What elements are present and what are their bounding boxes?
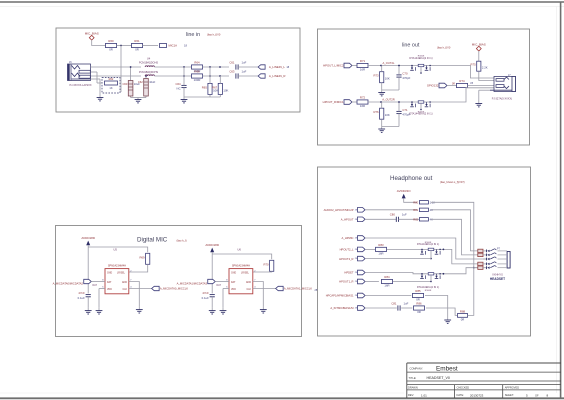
sheet border bottom — [0, 393, 564, 398]
line-out block frame — [318, 29, 530, 145]
wire — [129, 282, 140, 307]
port A_LINEIN_R — [258, 74, 285, 78]
svg-text:C60: C60 — [122, 82, 127, 86]
sheet border top — [0, 2, 564, 6]
resistor R81 — [413, 208, 433, 212]
svg-text:A_LINEIN_R: A_LINEIN_R — [269, 74, 286, 78]
svg-text:DAT: DAT — [231, 281, 236, 284]
IC U5 SPM1423HM4H — [102, 264, 132, 293]
rev field — [408, 393, 427, 397]
ground — [444, 318, 451, 323]
line-in title — [186, 32, 221, 38]
port HPOUT_R — [323, 100, 352, 105]
svg-text:HPOUT1_R: HPOUT1_R — [339, 280, 353, 284]
wire — [203, 66, 230, 68]
svg-text:AVDD18D: AVDD18D — [205, 243, 219, 247]
wire — [478, 51, 480, 61]
port A_HPOUT — [341, 217, 365, 222]
wire — [365, 218, 396, 220]
off-page port MIC1A — [160, 44, 188, 48]
svg-text:U6: U6 — [237, 247, 241, 251]
capacitor C64 — [175, 82, 186, 91]
inductor FB61 — [139, 71, 159, 76]
wire — [368, 97, 409, 103]
svg-text:470pF: 470pF — [402, 76, 410, 80]
svg-text:47nF: 47nF — [202, 291, 209, 295]
designator U6 — [237, 247, 241, 251]
wire — [387, 248, 419, 250]
svg-text:R80: R80 — [413, 201, 418, 205]
connector J7 line-out jack — [490, 74, 516, 101]
svg-text:HEADSET: HEADSET — [490, 277, 505, 281]
svg-text:A_HPOUT: A_HPOUT — [341, 218, 354, 222]
svg-text:R75: R75 — [471, 63, 477, 67]
wire — [117, 45, 132, 47]
power AVDD33O — [397, 189, 411, 198]
svg-text:U5: U5 — [113, 247, 117, 251]
svg-text:1uF: 1uF — [242, 69, 247, 73]
headphone-out title — [390, 175, 465, 184]
line-out title — [402, 43, 451, 50]
ground — [209, 308, 216, 314]
svg-text:A_MICDATA1_MICCLK: A_MICDATA1_MICCLK — [284, 287, 312, 291]
svg-text:HEADSET_V0: HEADSET_V0 — [427, 376, 450, 380]
port GPIO132 — [427, 83, 447, 88]
svg-text:16R: 16R — [360, 68, 365, 72]
svg-text:APPROVED: APPROVED — [505, 386, 520, 390]
resistor R71 — [357, 59, 368, 71]
svg-text:47nF: 47nF — [78, 291, 85, 295]
port A_INTMICBIAS1/M — [330, 306, 365, 311]
capacitor C63 — [229, 69, 246, 78]
svg-text:OF: OF — [535, 393, 539, 397]
svg-text:VDD: VDD — [231, 289, 236, 291]
svg-text:R61: R61 — [134, 39, 140, 43]
port HPDET — [344, 270, 365, 275]
capacitor C81 — [391, 301, 408, 310]
svg-text:R82: R82 — [413, 218, 418, 222]
svg-text:LR/SEL: LR/SEL — [241, 273, 250, 275]
wire — [468, 82, 495, 86]
resistor R67 — [212, 83, 228, 94]
svg-text:A_MICDATA0_MICCLK: A_MICDATA0_MICCLK — [160, 287, 188, 291]
digital-mic title — [137, 237, 187, 244]
resistor R90 — [478, 249, 483, 252]
ground — [136, 307, 143, 313]
capacitor C71 — [396, 108, 410, 117]
svg-text:1uF: 1uF — [402, 213, 407, 217]
wire — [154, 66, 191, 68]
ground — [220, 308, 227, 314]
svg-text:0.1uF: 0.1uF — [78, 296, 85, 300]
wire — [238, 75, 258, 77]
svg-text:AVDD18D: AVDD18D — [81, 236, 95, 240]
svg-text:0R: 0R — [452, 83, 455, 85]
resistor R64 — [192, 61, 203, 73]
port A_MICDATA0/MICDATA2 — [53, 279, 98, 287]
wire — [399, 218, 420, 220]
wire — [253, 288, 276, 290]
svg-text:HPOUT_L/MIC2: HPOUT_L/MIC2 — [323, 64, 344, 68]
resistor R69 — [139, 253, 149, 264]
ground — [475, 102, 482, 107]
wire — [87, 297, 89, 308]
wire — [130, 66, 147, 79]
wire — [215, 281, 223, 283]
svg-text:C70: C70 — [402, 71, 408, 75]
svg-text:R64: R64 — [194, 61, 200, 65]
resistor R74 — [457, 79, 468, 87]
svg-text:R85: R85 — [415, 289, 421, 293]
resistor R83 — [376, 243, 387, 255]
svg-text:DTA144EKA(2 IN 1): DTA144EKA(2 IN 1) — [417, 243, 439, 246]
date field — [457, 393, 484, 397]
svg-text:R67: R67 — [212, 85, 218, 89]
IC U6 SPM1423HM4H — [226, 264, 256, 293]
svg-text:(liao_h/wan s_f)(V07): (liao_h/wan s_f)(V07) — [440, 180, 465, 184]
svg-text:DATE:: DATE: — [457, 393, 465, 397]
port HPOUT_L — [323, 63, 352, 68]
resistor R80 — [413, 201, 435, 205]
wire — [120, 46, 122, 93]
svg-text:MIC1A: MIC1A — [169, 44, 178, 48]
wire — [365, 295, 411, 297]
capacitor C65 — [202, 291, 215, 300]
ground — [96, 308, 103, 314]
capacitor C80 — [390, 213, 407, 222]
svg-text:C63: C63 — [229, 69, 235, 73]
wire — [433, 66, 494, 79]
ground — [378, 90, 385, 96]
wire — [91, 281, 99, 283]
svg-text:C81: C81 — [391, 301, 397, 305]
svg-text:A_OUT2L: A_OUT2L — [383, 61, 395, 65]
svg-text:R76: R76 — [373, 110, 379, 114]
resistor R93 — [478, 266, 483, 269]
net label 2B — [315, 289, 318, 292]
svg-text:(liao h_f)V0: (liao h_f)V0 — [437, 46, 451, 50]
svg-text:Headphone out: Headphone out — [390, 175, 433, 182]
svg-text:HPOUT2_L: HPOUT2_L — [340, 248, 354, 252]
svg-text:GPIO132: GPIO132 — [427, 84, 439, 88]
resistor R84 — [382, 275, 393, 287]
svg-text:C80: C80 — [390, 213, 396, 217]
resistor R66 — [192, 70, 203, 82]
svg-text:1uF: 1uF — [404, 301, 409, 305]
drawn field — [408, 386, 418, 390]
resistor R88 — [458, 309, 468, 321]
port HPCAP1/HPMICBIAS1 — [326, 293, 365, 298]
svg-text:Embest: Embest — [436, 366, 458, 373]
wire — [431, 219, 478, 255]
inductor FB60 — [139, 57, 159, 68]
wire — [143, 45, 159, 47]
wire — [91, 66, 142, 68]
resistor R60 — [106, 39, 117, 51]
wire — [382, 65, 400, 90]
svg-text:100R: 100R — [194, 78, 201, 82]
wire — [211, 297, 213, 308]
svg-text:A_OUT2R: A_OUT2R — [382, 97, 394, 101]
svg-text:DTA144EKA(2 IN 1): DTA144EKA(2 IN 1) — [409, 112, 432, 116]
resistor R70 — [263, 260, 273, 271]
wire — [352, 101, 357, 103]
designator U5 — [113, 247, 117, 251]
svg-text:0R: 0R — [135, 48, 139, 52]
svg-text:10uF: 10uF — [149, 80, 155, 84]
wire — [479, 90, 490, 102]
wire — [365, 238, 486, 259]
power AVDD18D — [81, 236, 95, 245]
svg-text:NC: NC — [177, 87, 181, 91]
capacitor C70 — [396, 71, 410, 80]
svg-text:R83: R83 — [378, 243, 384, 247]
wire — [203, 75, 230, 77]
sheet field — [505, 393, 549, 397]
ground — [135, 98, 142, 103]
svg-text:0R: 0R — [417, 310, 421, 314]
line-in block frame — [56, 28, 300, 112]
ground — [85, 308, 92, 314]
wire — [431, 202, 475, 268]
wire — [479, 71, 494, 80]
wire — [238, 66, 258, 68]
svg-text:C62: C62 — [138, 80, 143, 84]
svg-text:DTA144EKA(2 IN 1): DTA144EKA(2 IN 1) — [409, 56, 432, 60]
sheet title — [409, 376, 450, 380]
svg-text:R74: R74 — [459, 79, 465, 83]
wire — [404, 198, 417, 202]
capacitor C61 — [229, 60, 246, 69]
svg-text:470pF: 470pF — [402, 113, 410, 117]
svg-text:10K: 10K — [385, 77, 390, 81]
svg-text:CHECKED: CHECKED — [457, 386, 470, 390]
port AUDIO2_HPOUT/MIC2P — [324, 208, 365, 213]
resistor R75 — [471, 61, 488, 71]
wire — [92, 40, 106, 45]
svg-text:20130723: 20130723 — [470, 393, 484, 397]
svg-text:HPCAP1/HPMICBIAS1: HPCAP1/HPMICBIAS1 — [326, 294, 354, 298]
svg-text:Digital MIC: Digital MIC — [137, 237, 168, 244]
capacitor C62 — [138, 77, 156, 98]
wire — [425, 296, 448, 319]
wire — [443, 268, 478, 275]
wire — [129, 288, 152, 290]
svg-text:C61: C61 — [229, 60, 235, 64]
svg-text:AVDD33O: AVDD33O — [397, 189, 411, 193]
svg-text:DAT: DAT — [107, 281, 112, 284]
power MIC_BIAS — [85, 32, 99, 41]
wire — [365, 273, 419, 274]
wire — [223, 282, 229, 308]
wire — [365, 307, 397, 309]
svg-text:R86: R86 — [416, 302, 422, 306]
svg-text:0R: 0R — [109, 48, 113, 52]
ground — [97, 96, 104, 101]
company name — [410, 366, 458, 373]
ground — [260, 307, 267, 313]
wire — [401, 307, 412, 309]
transistor Q81 DTA144EKA — [417, 273, 443, 292]
ground — [181, 96, 188, 103]
wire — [253, 282, 263, 307]
wire — [91, 75, 142, 77]
svg-text:R69: R69 — [139, 255, 145, 259]
svg-text:R60: R60 — [108, 39, 114, 43]
svg-text:R62: R62 — [109, 77, 114, 81]
svg-text:1uF: 1uF — [242, 60, 247, 64]
wire — [184, 67, 220, 97]
wire — [382, 101, 400, 126]
svg-text:R73: R73 — [373, 74, 379, 78]
svg-text:CLK: CLK — [123, 289, 128, 291]
wire — [183, 67, 185, 96]
svg-text:16R: 16R — [360, 104, 365, 108]
port A_LINEIN_L — [258, 65, 290, 69]
capacitor C60 — [122, 79, 140, 98]
svg-text:line out: line out — [402, 43, 420, 49]
svg-text:COMPANY:: COMPANY: — [410, 367, 424, 371]
svg-text:(liao h_f)V0: (liao h_f)V0 — [207, 32, 221, 36]
svg-text:DAT: DAT — [93, 284, 98, 287]
wire — [433, 88, 494, 102]
wire — [426, 308, 457, 315]
power AVDD18D — [205, 243, 219, 252]
wire — [97, 82, 121, 84]
svg-text:SPM1423HM4H: SPM1423HM4H — [232, 264, 250, 267]
svg-text:(liao h_f): (liao h_f) — [177, 239, 187, 243]
wire — [365, 258, 431, 260]
wire — [443, 249, 478, 264]
port A_MICDATA0_MICCLK — [152, 286, 189, 290]
wire — [365, 248, 375, 250]
svg-text:C71: C71 — [402, 108, 408, 112]
wire — [365, 281, 379, 283]
wire — [91, 79, 101, 96]
wire — [91, 72, 98, 83]
port A_HPMIC — [342, 236, 366, 241]
resistor R91 — [478, 253, 483, 256]
svg-text:10K: 10K — [385, 113, 390, 117]
power MIC_BIAS — [472, 42, 486, 51]
svg-text:U4: U4 — [147, 57, 151, 61]
svg-text:GND: GND — [107, 273, 112, 275]
svg-text:10K: 10K — [223, 88, 228, 92]
digital-mic block frame — [56, 226, 302, 337]
checked field — [457, 386, 470, 390]
svg-text:SHEET:: SHEET: — [505, 393, 514, 397]
svg-text:R84: R84 — [384, 275, 390, 279]
wire — [129, 264, 148, 272]
svg-text:HPOUT2_R: HPOUT2_R — [339, 257, 353, 261]
resistor R86 — [414, 302, 425, 314]
svg-text:PCM1B4QDOHS: PCM1B4QDOHS — [139, 71, 159, 74]
transistor Q71 DTA144EKA — [409, 101, 433, 116]
port HPOUT1_R — [339, 279, 365, 284]
connector J6 line-in jack — [68, 61, 92, 87]
resistor R76 — [373, 108, 389, 119]
svg-text:VDD: VDD — [107, 289, 112, 291]
svg-text:LR/SEL: LR/SEL — [117, 273, 126, 275]
resistor R82 — [413, 218, 433, 222]
svg-text:R72: R72 — [360, 96, 366, 100]
wire — [131, 97, 146, 99]
svg-text:A_LINEIN_L: A_LINEIN_L — [269, 65, 285, 69]
svg-text:R65: R65 — [202, 85, 208, 89]
resistor R65 — [202, 83, 218, 94]
resistor R62 (dashed opt) — [102, 77, 120, 93]
svg-text:line in: line in — [186, 32, 200, 38]
wire — [99, 282, 105, 308]
connector P7 headset — [483, 247, 510, 269]
svg-text:HPDET: HPDET — [344, 271, 353, 275]
capacitor C55 — [78, 291, 91, 300]
transistor Q80 DTA144EKA — [417, 242, 443, 259]
svg-text:A_INTMICBIAS1/M: A_INTMICBIAS1/M — [330, 306, 354, 310]
port HPOUT2_L — [340, 247, 365, 252]
headphone-out block frame — [318, 167, 531, 336]
ground — [378, 127, 385, 133]
svg-text:16R: 16R — [378, 252, 383, 256]
svg-text:SPM1423HM4H: SPM1423HM4H — [108, 264, 126, 267]
svg-text:PCM1B4QDOHS: PCM1B4QDOHS — [139, 62, 159, 65]
svg-text:DRAWN: DRAWN — [408, 386, 418, 390]
transistor Q70 DTA144EKA — [409, 56, 433, 74]
svg-text:HPOUT_R/MIC1: HPOUT_R/MIC1 — [323, 100, 344, 104]
resistor R92 — [478, 262, 483, 265]
wire — [368, 61, 409, 67]
svg-text:0R: 0R — [461, 317, 465, 321]
wire — [253, 270, 272, 273]
svg-text:1K: 1K — [109, 86, 112, 90]
wire — [431, 210, 478, 251]
svg-text:2.2K: 2.2K — [482, 66, 488, 70]
svg-text:R81: R81 — [413, 208, 418, 212]
resistor R73 — [373, 72, 389, 83]
svg-text:GND: GND — [231, 273, 236, 275]
resistor R61 — [132, 39, 143, 51]
wire — [468, 268, 478, 316]
svg-text:CLK: CLK — [247, 289, 252, 291]
resistor R72 — [357, 96, 368, 108]
svg-text:R1608: R1608 — [425, 290, 432, 292]
svg-text:PJ-327A(5-XXXX): PJ-327A(5-XXXX) — [492, 98, 512, 101]
svg-text:A_MICDATA0/MICDATA2: A_MICDATA0/MICDATA2 — [53, 281, 84, 285]
wire — [447, 83, 457, 85]
title block frame — [407, 363, 561, 398]
svg-text:16R: 16R — [384, 284, 389, 288]
wire — [154, 75, 191, 77]
wire — [393, 281, 431, 283]
port A_MICDATA1/MICDATA3 — [177, 279, 222, 287]
svg-text:0.1uF: 0.1uF — [202, 296, 209, 300]
svg-text:A_MICDATA1/MICDATA3: A_MICDATA1/MICDATA3 — [177, 281, 208, 285]
svg-text:C64: C64 — [175, 82, 181, 86]
svg-text:1.01: 1.01 — [421, 393, 427, 397]
headset label — [490, 273, 505, 281]
svg-text:R88: R88 — [460, 309, 466, 313]
svg-text:PJ-3XXXX-LAP2XX: PJ-3XXXX-LAP2XX — [70, 84, 92, 87]
port A_MICDATA1_MICCLK — [276, 286, 313, 290]
wire — [88, 245, 148, 293]
wire — [212, 252, 272, 293]
svg-text:R70: R70 — [263, 262, 269, 266]
sheet border right — [557, 2, 561, 398]
svg-text:TITLE:: TITLE: — [409, 376, 417, 380]
wire — [365, 209, 417, 211]
wire — [352, 65, 357, 67]
svg-text:DAT: DAT — [217, 284, 222, 287]
